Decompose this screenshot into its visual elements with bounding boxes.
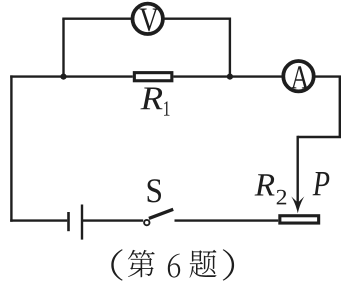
- battery cell long plate: [81, 205, 83, 240]
- voltmeter letter V: [140, 8, 159, 31]
- node B junction dot (right voltmeter tap): [227, 74, 233, 80]
- wire voltmeter right vertical down to node B: [229, 18, 231, 77]
- wire bottom row from left corner to battery: [10, 219, 67, 221]
- caption digit 6: [168, 254, 180, 278]
- wire voltmeter branch vertical from node A up: [62, 19, 64, 77]
- voltmeter V circle: [133, 4, 163, 34]
- wire top main row from left corner to resistor R1: [10, 75, 133, 77]
- wire R1 to ammeter: [173, 75, 281, 77]
- switch S hinge circle: [144, 220, 149, 225]
- wire voltmeter branch horizontal into voltmeter: [62, 18, 131, 20]
- rheostat R2 label subscript 2: [277, 190, 286, 205]
- switch S blade open: [149, 209, 173, 218]
- ammeter letter A: [291, 66, 309, 88]
- wire ammeter right horizontal then down right edge: [315, 77, 340, 137]
- wire horizontal over to wiper stem: [298, 136, 341, 138]
- rheostat R2 body: [280, 216, 319, 223]
- node A junction dot (left voltmeter tap): [60, 74, 66, 80]
- caption open parenthesis: [111, 249, 122, 280]
- caption character Ti: [189, 250, 216, 278]
- resistor R1 label subscript 1: [164, 101, 169, 115]
- caption close parenthesis: [223, 249, 234, 280]
- wire switch to rheostat R2: [175, 219, 279, 221]
- battery cell short plate: [67, 212, 70, 231]
- rheostat R2 label R: [255, 174, 275, 195]
- ammeter A circle: [283, 61, 313, 91]
- wire battery to switch: [83, 219, 143, 221]
- wire left vertical (from top-left corner down to bottom-left corner): [10, 75, 12, 221]
- caption character Di: [128, 250, 155, 278]
- wiper label P: [313, 172, 330, 195]
- switch letter S: [148, 179, 161, 202]
- wire voltmeter right horizontal: [164, 18, 230, 20]
- wiper arrowhead onto R2: [291, 196, 304, 213]
- resistor R1 label R: [140, 87, 162, 109]
- wire wiper stem vertical: [297, 136, 299, 208]
- resistor R1 body: [134, 73, 172, 81]
